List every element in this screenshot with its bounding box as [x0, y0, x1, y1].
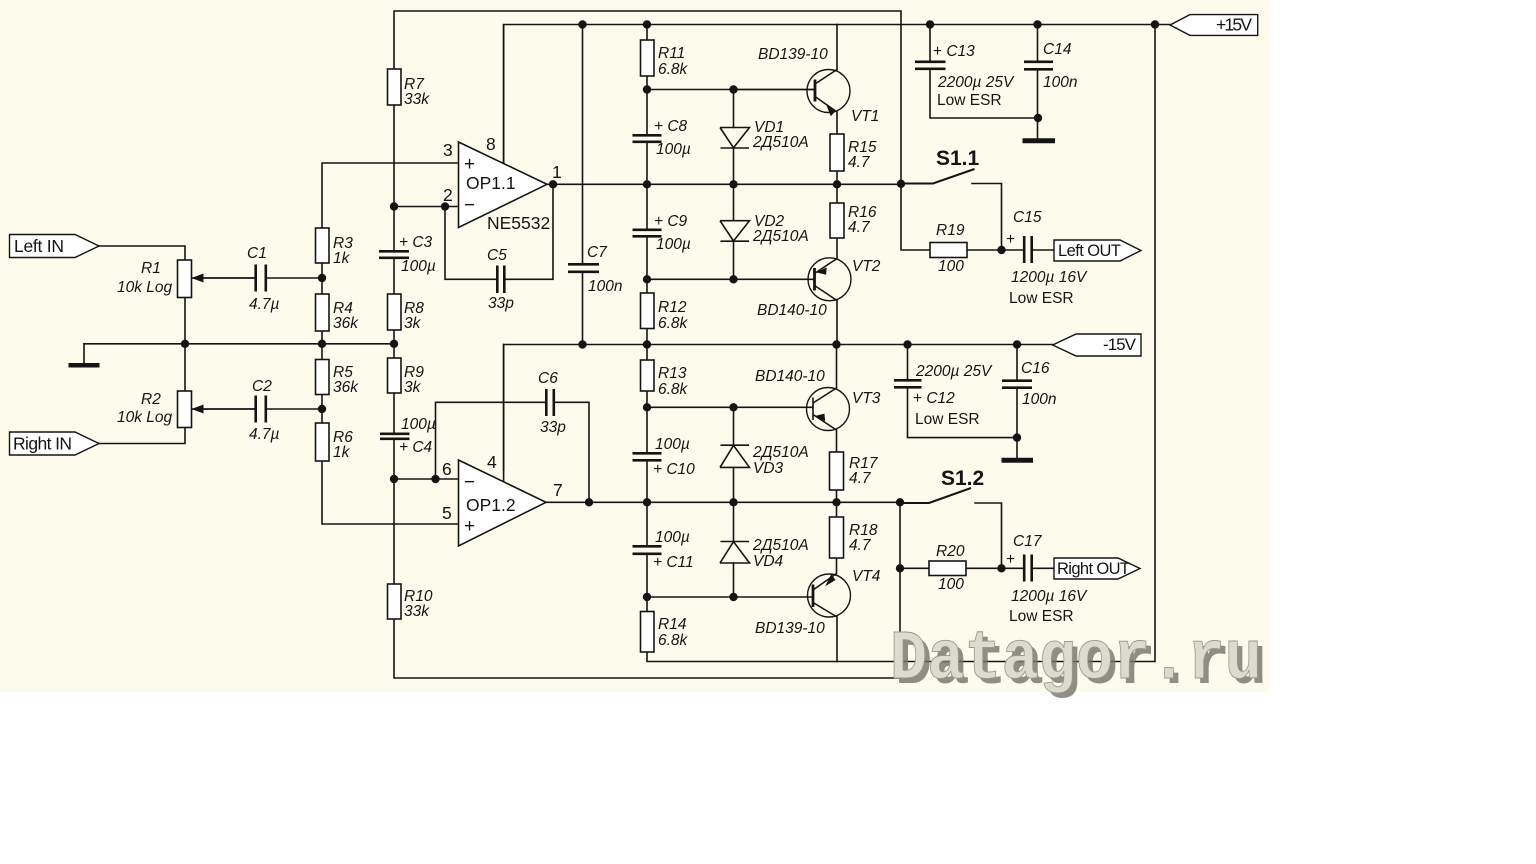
- resistor R6: [316, 423, 330, 461]
- ground (below C16): [1002, 458, 1034, 463]
- junction: C1 to R3/R4: [318, 274, 326, 282]
- svg-text:4.7µ: 4.7µ: [249, 296, 280, 313]
- wire: right border (+15V down to bottom rail): [647, 25, 1155, 662]
- svg-text:6.8k: 6.8k: [658, 381, 689, 398]
- wire: pin3 input net (R3 col to op-amp +): [322, 163, 459, 228]
- capacitor C14: [1024, 62, 1053, 70]
- svg-text:6.8k: 6.8k: [658, 315, 689, 332]
- potentiometer R1: [178, 260, 256, 298]
- capacitor C10: [633, 453, 662, 460]
- wire: VD3 column: [733, 407, 735, 502]
- label R12 value: [658, 299, 689, 332]
- wire: R4 bottom to ground rail: [321, 331, 323, 344]
- junction: R4/ground rail: [318, 340, 326, 348]
- svg-text:4.7: 4.7: [848, 219, 871, 236]
- svg-text:BD139-10: BD139-10: [758, 46, 828, 63]
- wire: S1.2 contact bracket: [975, 503, 1002, 568]
- capacitor C2: [256, 396, 266, 423]
- wire: R15 to R16 junction: [836, 171, 838, 203]
- svg-text:100µ: 100µ: [401, 258, 436, 275]
- junction: OP1.2 output / C6 tap: [585, 498, 593, 506]
- junction: R8/ground rail: [390, 340, 398, 348]
- wire: pin4 to -15V rail: [503, 345, 505, 471]
- svg-text:OP1.2: OP1.2: [466, 495, 516, 515]
- wire: pin6 wire to op-amp minus: [394, 478, 459, 480]
- svg-text:+15V: +15V: [1216, 15, 1252, 35]
- svg-text:Right OUT: Right OUT: [1057, 560, 1130, 578]
- junction: -15V rail / VT2-VT3 collectors: [832, 340, 840, 348]
- wire: R5 top to ground rail: [321, 344, 323, 360]
- svg-text:2Д510А: 2Д510А: [752, 444, 809, 461]
- wire: R3 bottom to R4 top: [321, 263, 323, 294]
- wire: OP1.2 feedback loop via C6: [436, 402, 590, 502]
- capacitor C17: [1024, 555, 1032, 582]
- junction: base wire VT1 / VD1: [729, 85, 737, 93]
- junction: output1 / feedback column: [897, 180, 905, 188]
- wire: C10 column: [646, 407, 648, 502]
- resistor R20: [929, 561, 966, 576]
- junction: output1 / R15-R16: [833, 180, 841, 188]
- label C11 value: [653, 529, 694, 571]
- wire: VT2 collector to -15V rail: [836, 301, 838, 345]
- wire: R16 to VT2 emitter: [836, 238, 838, 259]
- resistor R5: [316, 360, 330, 395]
- svg-text:4.7: 4.7: [849, 470, 872, 487]
- wire: R8 bottom to ground rail: [393, 330, 395, 344]
- wire: R14 column: [646, 597, 648, 612]
- resistor R10: [388, 584, 402, 619]
- label C6 value: [538, 370, 566, 436]
- capacitor C12: [894, 380, 922, 387]
- svg-text:C2: C2: [252, 378, 272, 395]
- wire: ground stub left: [83, 344, 85, 363]
- label C13 value: [933, 43, 1015, 109]
- junction: +15V rail / right border: [1151, 20, 1159, 28]
- wire: VT1 base wire: [647, 89, 815, 91]
- wire: C16 column: [1016, 345, 1018, 438]
- flag: -15V: [1053, 334, 1141, 356]
- junction: VT4 base wire / VD4: [729, 593, 737, 601]
- junction: base wire VT1 / R11: [643, 85, 651, 93]
- svg-text:+ C8: + C8: [654, 118, 688, 135]
- wire: C7 column top: [582, 25, 584, 265]
- wire: R6 bottom to pin5 wire: [322, 461, 459, 524]
- wire: C16 ground stub: [1016, 438, 1018, 458]
- transistor VT1 (BD139-10 NPN): [734, 70, 851, 117]
- label R6 value: [333, 429, 353, 461]
- svg-text:-15V: -15V: [1103, 335, 1137, 354]
- svg-text:36k: 36k: [333, 379, 359, 396]
- potentiometer R2: [178, 391, 256, 428]
- resistor R13: [641, 360, 655, 391]
- op-amp U1 pin8 stub: [503, 25, 505, 164]
- diode VD2: [720, 221, 750, 242]
- wire: VT4 collector to bottom rail: [836, 617, 838, 662]
- svg-text:R14: R14: [658, 616, 687, 633]
- svg-text:Datagor.ru: Datagor.ru: [890, 621, 1262, 700]
- label C17 value: [1006, 533, 1088, 625]
- switch S1.2 lever: [900, 488, 971, 503]
- svg-text:2Д510А: 2Д510А: [752, 134, 809, 151]
- label C10 value: [653, 436, 695, 478]
- wire: R2 top to ground rail: [184, 344, 186, 391]
- label R18 value: [849, 522, 878, 554]
- label R4 value: [333, 300, 359, 332]
- wire: R18 to VT4 emitter: [836, 558, 838, 574]
- junction: VT3 base wire / R13: [643, 403, 651, 411]
- svg-text:C1: C1: [247, 245, 267, 262]
- svg-text:8: 8: [486, 134, 496, 154]
- svg-text:C16: C16: [1021, 360, 1050, 377]
- label R20 value: [936, 543, 965, 593]
- wire: VT3 base wire: [647, 406, 812, 408]
- svg-text:Low ESR: Low ESR: [915, 411, 980, 428]
- svg-text:C14: C14: [1043, 41, 1072, 58]
- svg-text:4.7µ: 4.7µ: [249, 426, 280, 443]
- wire: VD4 column: [733, 502, 735, 597]
- svg-text:R19: R19: [936, 222, 965, 239]
- wire: R11 bottom to base wire: [646, 76, 648, 90]
- ground (input section): [69, 363, 100, 368]
- resistor R15: [830, 134, 844, 171]
- wire: OP1.1 feedback loop via C5: [445, 184, 553, 279]
- svg-text:33k: 33k: [404, 91, 430, 108]
- svg-text:3k: 3k: [404, 379, 422, 396]
- wire: OP1.1 output: [547, 183, 901, 185]
- svg-text:100: 100: [938, 258, 964, 275]
- capacitor C8: [633, 135, 662, 142]
- svg-text:C7: C7: [587, 244, 608, 261]
- wire: ch1 feedback column down to R19 wire: [901, 184, 930, 251]
- svg-text:1200µ 16V: 1200µ 16V: [1011, 588, 1088, 605]
- label C9 value: [654, 213, 691, 253]
- wire: R7 bottom to pin2 node: [393, 105, 395, 207]
- wire: C7 column bottom: [582, 272, 584, 345]
- svg-text:3k: 3k: [404, 315, 422, 332]
- svg-text:7: 7: [553, 480, 563, 500]
- wire: R20 wire from output column: [900, 567, 929, 569]
- flag: +15V: [1170, 15, 1258, 36]
- ground (below C14): [1023, 138, 1056, 143]
- svg-text:4.7: 4.7: [848, 154, 871, 171]
- svg-text:NE5532: NE5532: [487, 213, 550, 233]
- junction: R1 wiper net / ground rail: [181, 340, 189, 348]
- svg-text:10k Log: 10k Log: [117, 409, 173, 426]
- svg-text:100µ: 100µ: [656, 236, 691, 253]
- transistor VT2 (BD140-10 PNP): [808, 258, 851, 301]
- svg-text:Low ESR: Low ESR: [937, 92, 1002, 109]
- junction: VT4 base wire / C11: [643, 593, 651, 601]
- svg-text:2200µ 25V: 2200µ 25V: [915, 363, 993, 380]
- wire: C4 bottom to pin6 node: [393, 439, 395, 480]
- flag: Right OUT: [1054, 558, 1140, 579]
- capacitor C13: [915, 62, 946, 69]
- wire: VT1 collector to +15V rail: [836, 25, 838, 71]
- label VT2 / BD140-10: [757, 258, 881, 319]
- label VD1 value: [752, 119, 809, 151]
- wire: ground rail left section: [84, 343, 394, 345]
- label VD3 value: [752, 444, 809, 477]
- svg-text:R2: R2: [141, 391, 161, 408]
- label R19 value: [936, 222, 965, 275]
- svg-text:VD3: VD3: [753, 460, 784, 477]
- svg-text:100µ: 100µ: [656, 141, 691, 158]
- svg-text:+: +: [464, 516, 475, 537]
- svg-text:VT4: VT4: [852, 568, 881, 585]
- label R7 value: [404, 76, 430, 108]
- svg-text:4: 4: [487, 452, 497, 472]
- wire: C14 column: [1037, 25, 1039, 140]
- resistor R4: [316, 294, 330, 331]
- wire: -15V rail: [504, 344, 1053, 346]
- label C4 value: [399, 416, 436, 456]
- label R1 value: [117, 260, 173, 296]
- svg-text:R11: R11: [658, 45, 685, 62]
- label R2 value: [117, 391, 173, 426]
- junction: -15V rail / C16: [1013, 340, 1021, 348]
- capacitor C9: [633, 230, 662, 237]
- op-amp1 +/- marks: [464, 154, 475, 216]
- svg-text:VT1: VT1: [851, 108, 879, 125]
- svg-text:BD140-10: BD140-10: [755, 368, 825, 385]
- wire: R2 wiper to C2: [192, 408, 256, 410]
- svg-text:R1: R1: [141, 260, 161, 277]
- svg-text:VT2: VT2: [852, 258, 881, 275]
- diode VD3: [720, 445, 750, 467]
- wire: ch2 output column down to R20 wire and feedback bottom: [394, 502, 900, 678]
- svg-text:C5: C5: [487, 247, 507, 264]
- svg-text:5: 5: [442, 503, 452, 523]
- svg-text:3: 3: [443, 140, 453, 160]
- svg-text:S1.2: S1.2: [941, 467, 984, 490]
- junction: output2 / R17-R18: [832, 498, 840, 506]
- wire: C3 bottom to R8 top: [393, 258, 395, 294]
- wire: R19 to C15: [967, 249, 1024, 251]
- diode VD4: [720, 542, 750, 564]
- junction: S1.2 input node: [896, 564, 904, 572]
- svg-text:+: +: [464, 154, 475, 175]
- label C7 value: [587, 244, 622, 295]
- svg-text:+ C12: + C12: [913, 390, 955, 407]
- label OP1.1 pins: [443, 134, 562, 205]
- label R3 value: [333, 235, 353, 267]
- junction: pin6 / C6 feedback: [431, 475, 439, 483]
- svg-text:6: 6: [442, 459, 452, 479]
- wire: pin2 node to op-amp minus: [394, 206, 459, 208]
- switch S1.1 lever: [901, 169, 975, 184]
- flag: Right IN: [10, 432, 100, 455]
- capacitor C15: [1024, 236, 1032, 263]
- svg-text:2: 2: [443, 185, 453, 205]
- junction: R19 output node: [997, 246, 1005, 254]
- junction: C13/C14 bottom: [1034, 114, 1042, 122]
- label VD2 value: [752, 213, 809, 245]
- resistor R8: [388, 294, 402, 330]
- label R13 value: [658, 365, 689, 398]
- wire: R5 bottom to R6 top: [321, 395, 323, 424]
- wire: R9 top from ground rail: [393, 344, 395, 358]
- svg-text:100n: 100n: [588, 278, 622, 295]
- junction: pin2 / C5 feedback: [441, 202, 449, 210]
- resistor R14: [641, 612, 655, 653]
- svg-text:−: −: [464, 472, 475, 493]
- capacitor C7: [568, 264, 599, 272]
- svg-text:R13: R13: [658, 365, 687, 382]
- wire: R17 to R18 junction: [836, 490, 838, 517]
- junction: output2 / feedback column: [896, 498, 904, 506]
- svg-text:+ C3: + C3: [399, 234, 433, 251]
- svg-text:C6: C6: [538, 370, 558, 387]
- svg-text:BD139-10: BD139-10: [755, 620, 825, 637]
- svg-text:C17: C17: [1013, 533, 1043, 550]
- resistor R19: [930, 243, 967, 258]
- junction: +15V rail / C13: [926, 20, 934, 28]
- wire: C15 to Left OUT flag: [1032, 249, 1055, 251]
- svg-text:+ C9: + C9: [654, 213, 688, 230]
- svg-text:+ C11: + C11: [653, 554, 694, 571]
- wire: VD2 column: [733, 184, 735, 279]
- flag: Left OUT: [1054, 240, 1141, 261]
- resistor R12: [641, 293, 655, 329]
- wire: pin2 node to C3 top: [393, 207, 395, 252]
- svg-text:C15: C15: [1013, 209, 1042, 226]
- junction: output1 / C8: [643, 180, 651, 188]
- flag: Left IN: [10, 235, 100, 258]
- diode VD1: [720, 128, 750, 149]
- wire: C1 to R3/R4 junction: [267, 277, 323, 279]
- svg-text:1k: 1k: [333, 250, 351, 267]
- wire: pin6 node down to R10 top: [393, 479, 395, 584]
- resistor R9: [388, 358, 402, 393]
- capacitor C1: [256, 265, 266, 292]
- svg-text:6.8k: 6.8k: [658, 632, 689, 649]
- resistor R16: [830, 203, 844, 238]
- svg-text:100n: 100n: [1043, 74, 1077, 91]
- resistor R18: [830, 517, 844, 558]
- svg-text:+ C4: + C4: [399, 439, 433, 456]
- label R8 value: [404, 300, 424, 332]
- wire: C8 column: [646, 90, 648, 185]
- label C1 value: [247, 245, 280, 313]
- junction: VT2 base wire / VD2: [729, 275, 737, 283]
- junction: OP1.1 output / C5 tap: [549, 180, 557, 188]
- junction: output1 / VD1-VD2: [729, 180, 737, 188]
- label R5 value: [333, 364, 359, 396]
- resistor R3: [316, 228, 330, 263]
- svg-text:100n: 100n: [1022, 391, 1056, 408]
- svg-text:Left OUT: Left OUT: [1058, 242, 1121, 260]
- capacitor C3: [379, 251, 409, 257]
- svg-text:2200µ 25V: 2200µ 25V: [937, 74, 1015, 91]
- svg-text:10k Log: 10k Log: [117, 279, 173, 296]
- wire: ch1 output/feedback top rail (R7 top to output column): [394, 11, 901, 184]
- svg-text:R20: R20: [936, 543, 965, 560]
- label VT4 / BD139-10: [755, 568, 881, 637]
- svg-text:+ C13: + C13: [933, 43, 975, 60]
- label C12 value: [913, 363, 993, 428]
- label R14 value: [658, 616, 689, 649]
- svg-text:VT3: VT3: [852, 390, 881, 407]
- svg-text:4.7: 4.7: [849, 537, 872, 554]
- svg-text:2Д510А: 2Д510А: [752, 537, 809, 554]
- svg-text:33p: 33p: [540, 419, 566, 436]
- svg-text:33k: 33k: [404, 603, 430, 620]
- svg-text:100µ: 100µ: [401, 416, 436, 433]
- capacitor C4: [380, 434, 410, 439]
- svg-text:36k: 36k: [333, 315, 359, 332]
- junction: R20 output node: [997, 564, 1005, 572]
- wire: C11 column: [646, 502, 648, 597]
- label OP1.2 pins: [442, 452, 563, 523]
- wire: R11 top: [646, 25, 648, 41]
- wire: C13 column: [930, 25, 1038, 119]
- op-amp U1 OP1.1: [459, 142, 548, 228]
- label R16 value: [848, 204, 877, 236]
- wire: +15V rail: [504, 25, 1170, 164]
- svg-text:−: −: [464, 195, 475, 216]
- capacitor C11: [633, 546, 662, 554]
- resistor R7: [388, 69, 402, 105]
- wire: S1.1 contact bracket: [972, 184, 1002, 251]
- junction: -15V rail / C7: [578, 340, 586, 348]
- junction: R7 bottom / pin2: [390, 202, 398, 210]
- wire: C9 column: [646, 184, 648, 279]
- junction: -15V rail / C12: [903, 340, 911, 348]
- svg-text:OP1.1: OP1.1: [466, 173, 516, 193]
- label R17 value: [849, 455, 879, 487]
- svg-text:100µ: 100µ: [655, 529, 690, 546]
- wire: OP1.2 output: [546, 501, 900, 503]
- label R11 value: [658, 45, 689, 78]
- op-amp U2 pin4 stub: [503, 345, 505, 483]
- label VD4 value: [752, 537, 809, 570]
- label C3 value: [399, 234, 436, 275]
- capacitor C16: [1002, 381, 1032, 388]
- wire: R9 bottom to C4 top: [393, 393, 395, 434]
- svg-text:Right IN: Right IN: [13, 434, 72, 454]
- resistor R11: [641, 40, 655, 76]
- resistor R17: [830, 452, 844, 490]
- svg-text:1: 1: [552, 162, 562, 182]
- wire: VT3 collector to -15V rail: [836, 345, 838, 389]
- wire: VT4 base wire: [647, 596, 812, 598]
- wire: R12 column: [646, 279, 648, 344]
- junction: C4 bottom / pin6: [390, 475, 398, 483]
- svg-text:VD4: VD4: [753, 553, 784, 570]
- wire: R1 bottom to ground rail: [184, 298, 186, 344]
- wire: Right IN to R2 bottom: [99, 428, 185, 444]
- label C5 value: [487, 247, 514, 312]
- wire: C17 to Right OUT flag: [1032, 567, 1055, 569]
- junction: +15V rail / pin8 area C7: [578, 20, 586, 28]
- svg-text:R12: R12: [658, 299, 687, 316]
- op-amp U2 OP1.2: [459, 460, 547, 546]
- junction: C2 to R5/R6: [318, 405, 326, 413]
- svg-text:2Д510А: 2Д510А: [752, 228, 809, 245]
- op-amp2 +/- marks: [464, 472, 475, 537]
- wire: VT2 base wire: [647, 278, 812, 280]
- junction: C12/C16 bottom: [1013, 433, 1021, 441]
- svg-text:100µ: 100µ: [655, 436, 690, 453]
- label C8 value: [654, 118, 691, 158]
- junction: VT3 base wire / VD3: [729, 403, 737, 411]
- wire: VT3 emitter to R17: [836, 430, 838, 452]
- svg-text:+ C10: + C10: [653, 461, 695, 478]
- capacitor C6: [546, 389, 554, 416]
- svg-text:BD140-10: BD140-10: [757, 302, 827, 319]
- svg-text:1k: 1k: [333, 444, 351, 461]
- label C15 value: [1006, 209, 1088, 307]
